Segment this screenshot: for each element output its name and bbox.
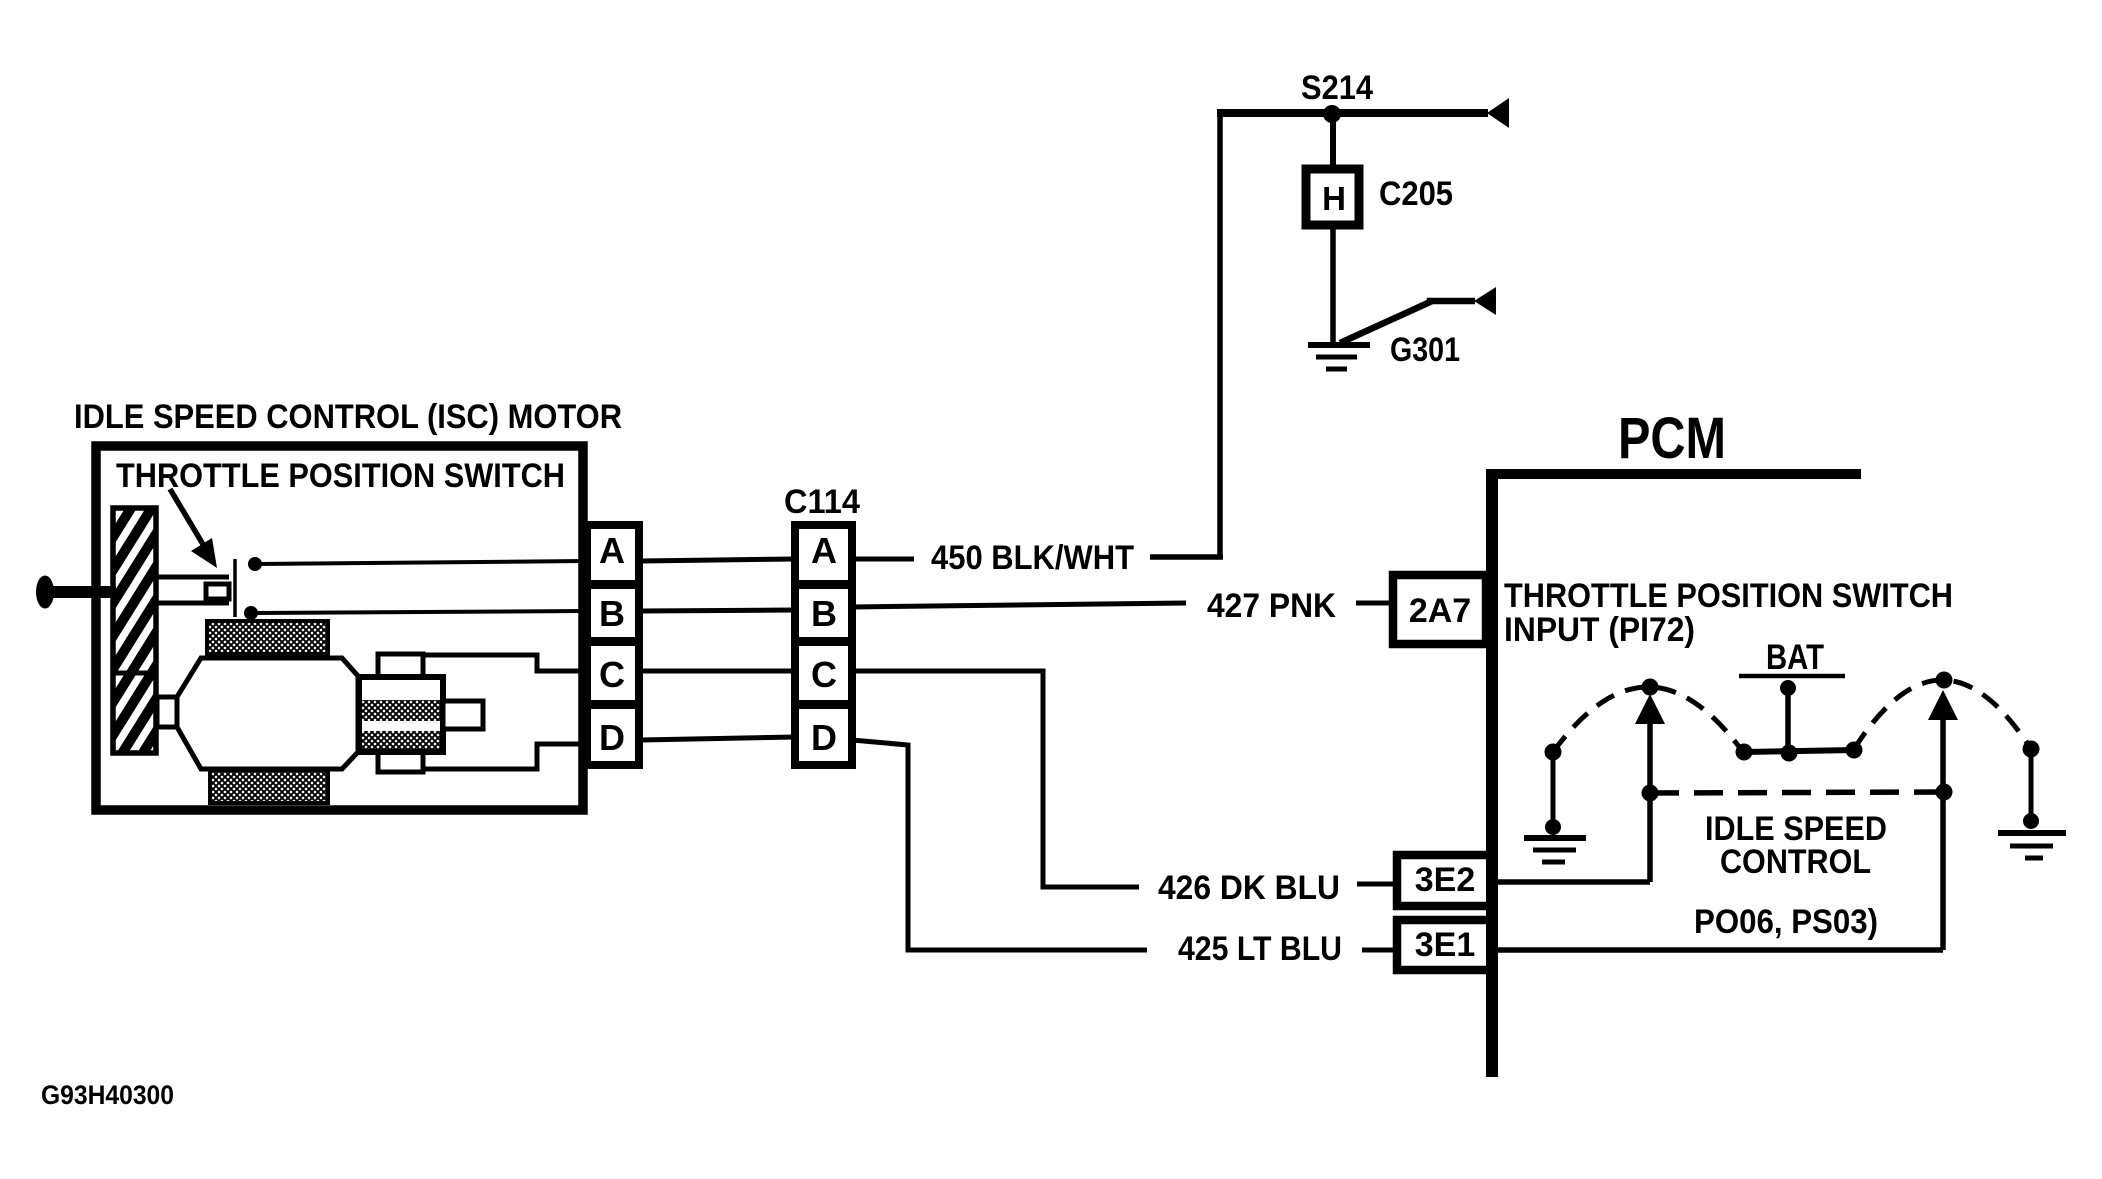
svg-text:THROTTLE POSITION SWITCH: THROTTLE POSITION SWITCH [1504,577,1953,615]
svg-text:B: B [599,593,625,634]
svg-text:427 PNK: 427 PNK [1207,587,1336,625]
wire: pin A to C114 A [641,559,795,561]
worm gear top tab [378,654,423,678]
off-page arrow near G301 [1474,287,1496,315]
PCM left edge [1486,469,1498,1077]
wire: gear to pin C [424,655,584,671]
PCM pin 3E1 box [1397,920,1493,970]
left pole wire [1551,752,1556,829]
bar left dot [1736,744,1753,761]
dashed arc right [1854,680,2031,749]
PCM top edge [1490,469,1861,479]
pin divider C/D [583,700,643,709]
arc right peak dot [1936,672,1953,689]
svg-text:450 BLK/WHT: 450 BLK/WHT [931,539,1134,577]
right wiper arrowhead [1928,690,1958,720]
throttle shaft [44,586,116,598]
svg-text:C205: C205 [1379,175,1453,213]
wire: gear to pin D [424,744,584,769]
worm gear body [359,677,443,752]
dashed arc left [1553,687,1743,752]
right pole dot [2023,741,2040,758]
switch blade [233,559,237,617]
wire 450: riser [1217,110,1223,557]
wire: contact A to pin A [255,561,585,564]
throttle plate divider [111,671,158,676]
wire: C205 to ground [1330,229,1336,345]
motor brush upper [207,621,328,654]
right wiper junction dot [1936,784,1953,801]
output shaft [443,701,483,729]
wire: pin D to C114 D [641,737,795,740]
BAT stub [1785,688,1791,753]
svg-text:425 LT BLU: 425 LT BLU [1178,930,1342,968]
contact dot A [248,557,262,571]
connector C114 outline [795,525,852,765]
svg-text:C: C [599,654,625,695]
left pole lower dot [1545,819,1561,835]
svg-text:BAT: BAT [1766,638,1824,677]
PCM pin 3E2 box [1397,855,1493,906]
wire: pin C to C114 C [641,669,795,674]
pin divider B/C [583,637,643,646]
wire 426 stub [1357,882,1394,887]
wire 427 stub [1356,601,1394,606]
wire 427: C114 B to 2A7 [852,603,1186,607]
throttle shaft ball [36,576,54,609]
bar right dot [1846,742,1863,759]
BAT underline [1739,674,1845,679]
wire 426: C114 C to 3E2 [852,671,1139,887]
svg-text:PO06, PS03): PO06, PS03) [1694,903,1878,941]
C114 divider B/C [791,637,856,646]
wire 425 stub [1362,948,1394,953]
node S214 dot [1323,105,1341,123]
PCM pin 2A7 box [1393,575,1486,644]
svg-text:426 DK BLU: 426 DK BLU [1158,869,1340,907]
bar mid dot [1781,745,1798,762]
left wiper junction dot [1642,785,1659,802]
motor shaft nub [157,697,177,727]
svg-text:A: A [599,530,625,571]
off-page arrow right of S214 [1487,98,1509,128]
svg-text:B: B [811,593,837,634]
arrow: label to switch [170,489,204,546]
dashed link line [1650,792,1944,793]
C114 divider A/B [791,580,856,589]
pin divider A/B [583,580,643,589]
right pole wire [2029,749,2034,823]
ISC motor box [96,446,583,810]
connector C205 box with H [1306,169,1359,225]
arc left peak dot [1642,679,1659,696]
left wiper arrowhead [1635,694,1665,724]
ground left (PCM) [1524,835,1586,841]
right pole lower dot [2023,813,2039,829]
wire 450: to riser [1150,554,1223,560]
svg-text:CONTROL: CONTROL [1720,843,1871,881]
svg-text:2A7: 2A7 [1409,592,1471,630]
svg-text:S214: S214 [1301,69,1373,107]
wire: S214 bus [1217,109,1488,117]
svg-text:3E1: 3E1 [1415,926,1476,964]
right wiper arrow shaft [1940,719,1946,950]
worm gear band 1 [362,700,440,721]
worm gear band 2 [362,731,440,749]
svg-text:D: D [811,717,837,758]
svg-text:D: D [599,717,625,758]
left pole dot [1545,744,1562,761]
svg-text:C114: C114 [784,483,860,521]
switch fork upper [156,575,229,580]
throttle plate (hatched) [108,460,161,842]
ground right (PCM) [1998,830,2066,836]
wire: ground to off-page arrow [1340,301,1475,343]
motor brush lower [210,770,328,803]
svg-text:H: H [1322,180,1346,217]
ground G301 [1308,342,1370,348]
switch common bar [1744,750,1855,752]
wire 425: C114 D to 3E1 [852,740,1147,950]
wire: 3E2 to left wiper [1493,879,1650,885]
C114 divider C/D [791,700,856,709]
svg-text:G301: G301 [1390,331,1460,369]
wire: 3E1 to right wiper [1493,947,1943,953]
wire 450: C114 A stub [852,557,914,562]
svg-text:C: C [811,654,837,695]
svg-text:PCM: PCM [1618,406,1726,471]
BAT dot [1780,680,1796,696]
svg-text:INPUT (PI72): INPUT (PI72) [1504,611,1695,649]
wire: contact B to pin B [251,611,585,613]
switch slider box [206,584,229,599]
wire: pin B to C114 B [641,610,795,611]
svg-text:G93H40300: G93H40300 [41,1080,174,1110]
contact dot B [244,606,258,620]
motor body [177,658,358,769]
svg-text:A: A [811,530,837,571]
svg-text:3E2: 3E2 [1415,861,1476,899]
left wiper arrow shaft [1647,723,1653,882]
ISC pin connector outline [587,525,639,765]
wire: S214 to C205 [1330,113,1336,168]
svg-text:THROTTLE POSITION SWITCH: THROTTLE POSITION SWITCH [116,457,565,495]
switch fork lower [156,601,229,606]
svg-text:IDLE SPEED CONTROL (ISC) MOTOR: IDLE SPEED CONTROL (ISC) MOTOR [74,398,622,436]
worm gear bottom tab [378,751,423,772]
